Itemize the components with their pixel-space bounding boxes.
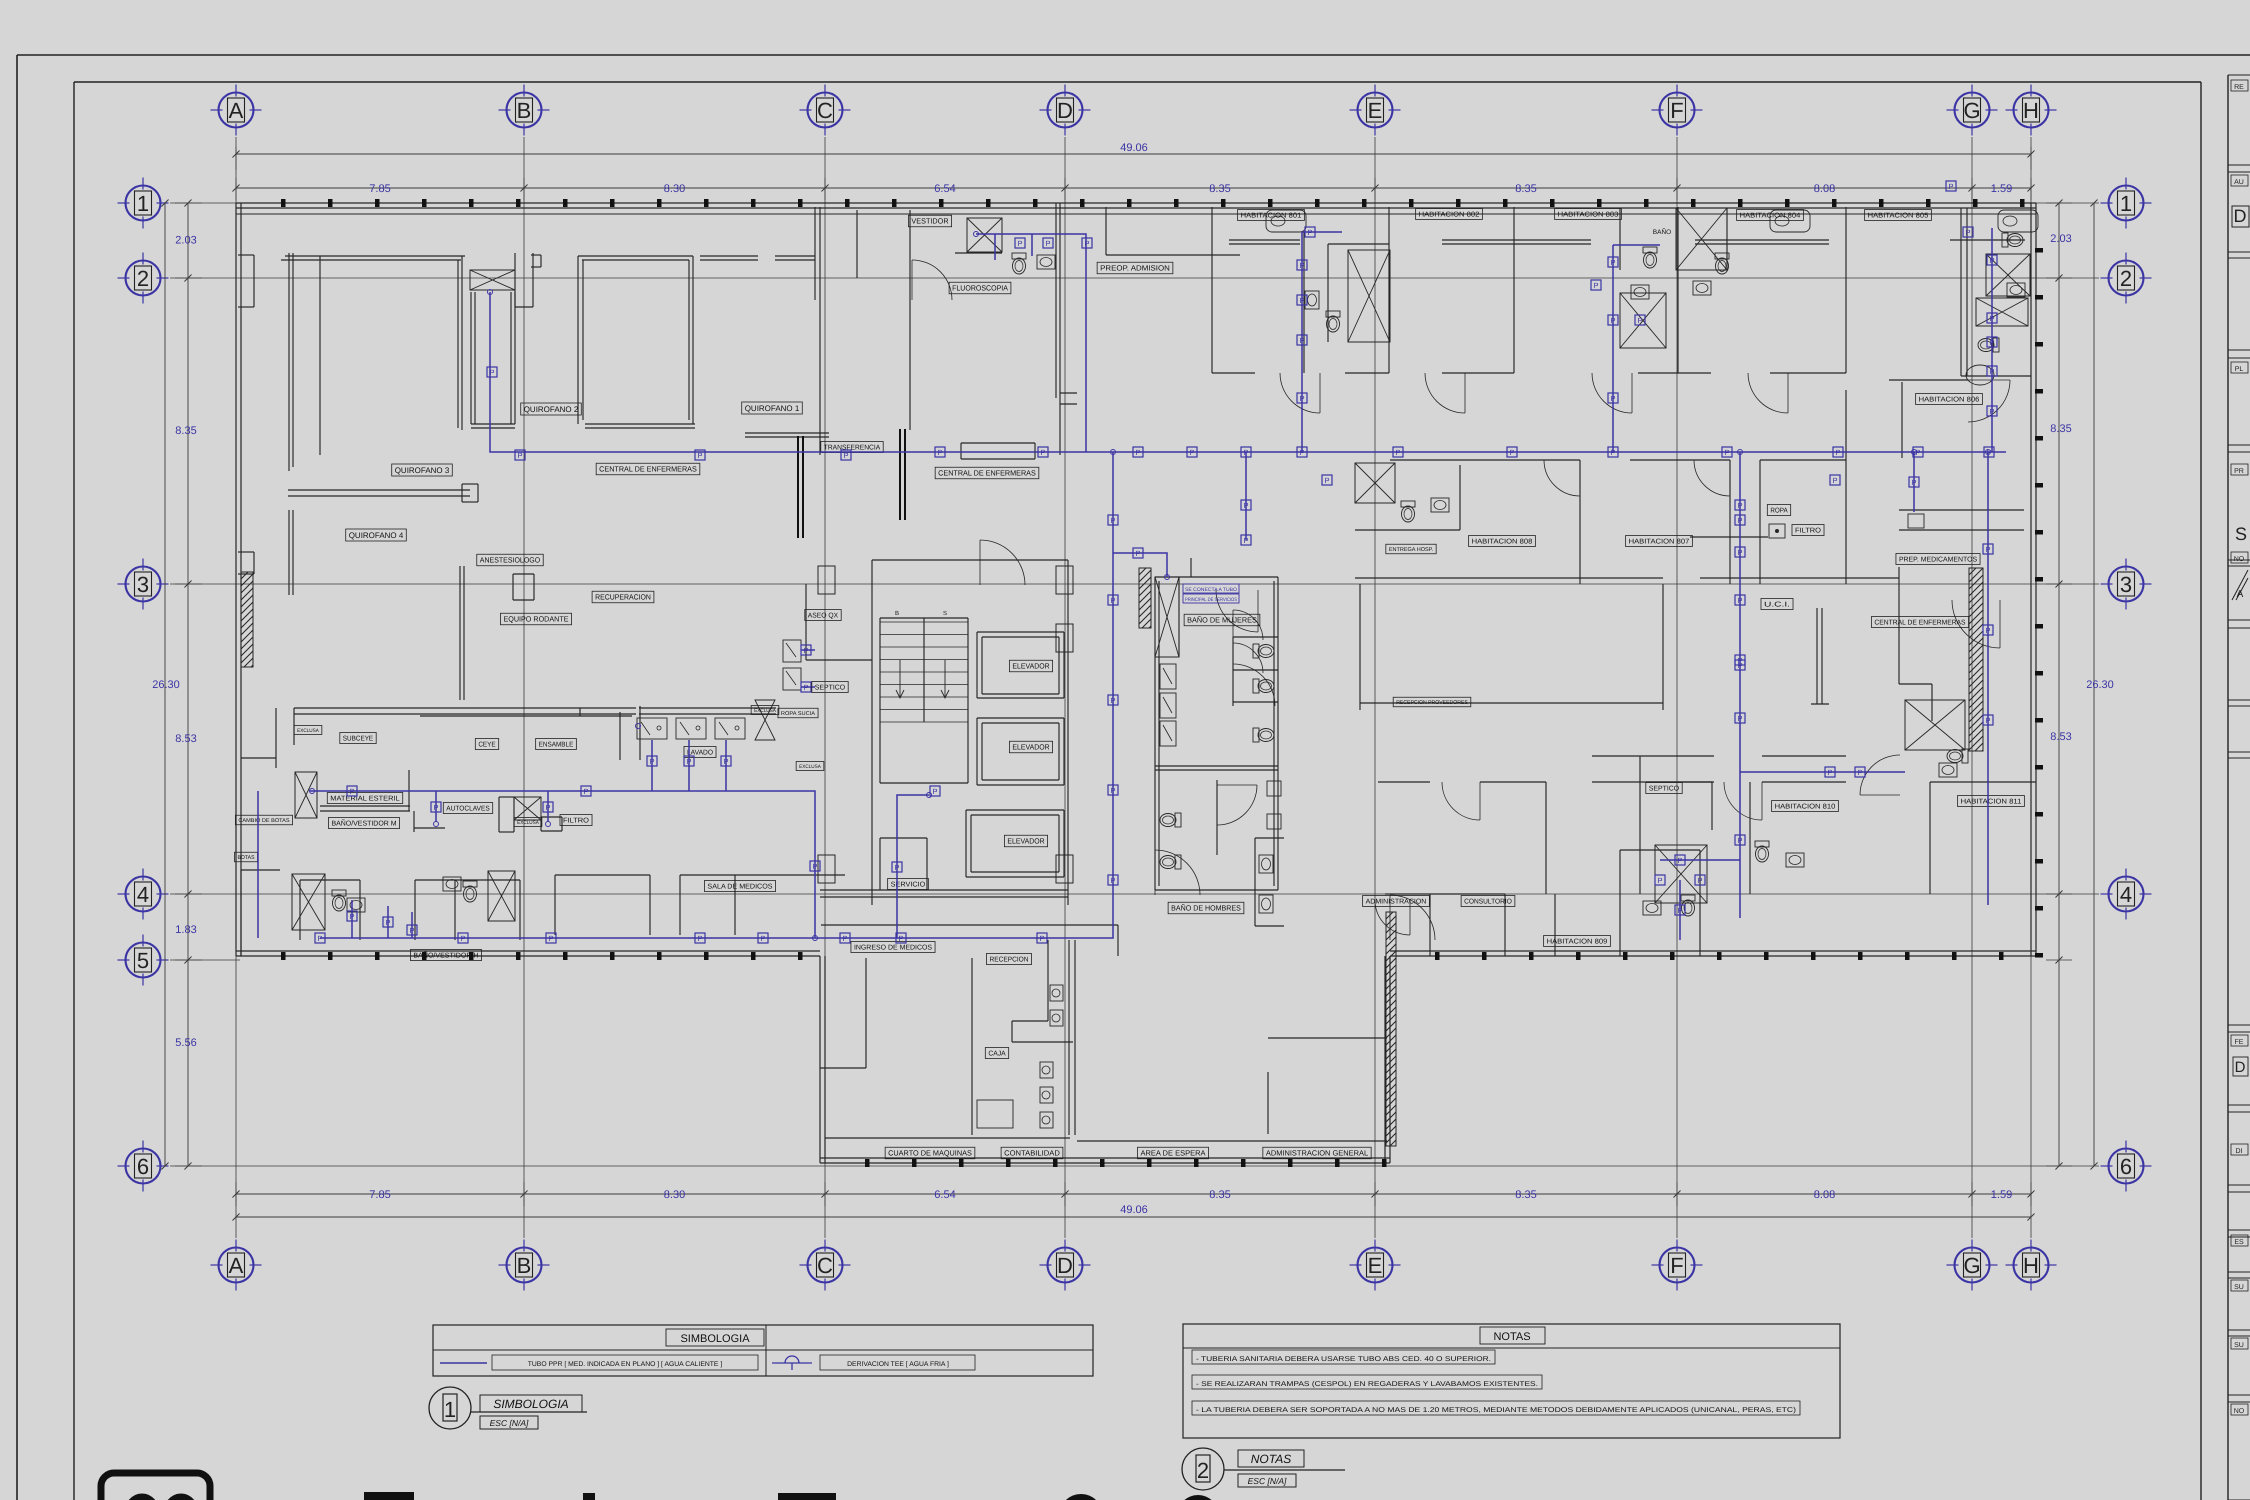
svg-text:6.54: 6.54 (934, 1189, 955, 1201)
svg-text:B: B (517, 98, 532, 123)
svg-text:8.35: 8.35 (175, 425, 196, 437)
svg-text:P: P (349, 912, 354, 921)
svg-text:SERVICIO: SERVICIO (891, 882, 926, 889)
svg-text:EQUIPO RODANTE: EQUIPO RODANTE (503, 615, 568, 624)
svg-text:P: P (1610, 258, 1615, 267)
svg-text:SIMBOLOGIA: SIMBOLOGIA (680, 1333, 750, 1345)
svg-text:P: P (894, 863, 899, 872)
svg-text:P: P (842, 934, 847, 943)
svg-text:P: P (1299, 336, 1304, 345)
svg-text:P: P (1610, 394, 1615, 403)
svg-text:TUBO PPR [ MED. INDICADA EN PL: TUBO PPR [ MED. INDICADA EN PLANO ] [ AG… (528, 1361, 723, 1368)
svg-text:QUIROFANO 3: QUIROFANO 3 (395, 466, 450, 475)
svg-text:PREP. MEDICAMENTOS: PREP. MEDICAMENTOS (1899, 557, 1977, 564)
svg-text:P: P (1737, 836, 1742, 845)
svg-text:ELEVADOR: ELEVADOR (1012, 662, 1050, 671)
svg-text:CONSULTORIO: CONSULTORIO (1464, 899, 1512, 906)
svg-text:8.53: 8.53 (2050, 731, 2071, 743)
svg-text:P: P (1677, 856, 1682, 865)
svg-text:P: P (1039, 934, 1044, 943)
svg-text:F: F (1670, 98, 1683, 123)
svg-text:P: P (1948, 182, 1953, 191)
svg-text:P: P (1110, 596, 1115, 605)
svg-text:P: P (1989, 407, 1994, 416)
svg-text:P: P (1243, 501, 1248, 510)
svg-text:EXCLUSA: EXCLUSA (799, 764, 821, 770)
svg-text:NO: NO (2234, 556, 2245, 563)
svg-text:PREOP. ADMISION: PREOP. ADMISION (1100, 264, 1170, 273)
svg-text:P: P (460, 934, 465, 943)
svg-text:ADMINISTRACION: ADMINISTRACION (1366, 899, 1427, 906)
svg-text:- TUBERIA SANITARIA DEBERA USA: - TUBERIA SANITARIA DEBERA USARSE TUBO A… (1196, 1356, 1491, 1363)
svg-text:P: P (1135, 549, 1140, 558)
svg-text:ELEVADOR: ELEVADOR (1012, 743, 1050, 752)
svg-text:H: H (2023, 98, 2039, 123)
svg-text:BAÑO DE HOMBRES: BAÑO DE HOMBRES (1171, 904, 1241, 913)
svg-text:E: E (1368, 98, 1383, 123)
svg-text:2: 2 (1197, 1458, 1209, 1483)
svg-text:CAMBIO DE BOTAS: CAMBIO DE BOTAS (238, 818, 289, 824)
svg-text:SU: SU (2234, 1342, 2244, 1349)
svg-text:6.54: 6.54 (934, 183, 955, 195)
svg-text:D: D (1057, 1253, 1073, 1278)
svg-text:P: P (760, 934, 765, 943)
svg-text:C: C (817, 98, 833, 123)
svg-text:DERIVACION TEE [ AGUA FRIA ]: DERIVACION TEE [ AGUA FRIA ] (847, 1361, 949, 1368)
svg-text:RECEPCION PROVEEDORES: RECEPCION PROVEEDORES (1396, 700, 1468, 706)
svg-text:P: P (1610, 316, 1615, 325)
svg-text:SUBCEYE: SUBCEYE (343, 736, 374, 743)
svg-text:P: P (1737, 714, 1742, 723)
svg-text:AREA DE ESPERA: AREA DE ESPERA (1140, 1149, 1205, 1158)
svg-text:P: P (697, 934, 702, 943)
svg-text:8.08: 8.08 (1814, 183, 1835, 195)
svg-text:4: 4 (2120, 882, 2132, 907)
svg-text:1: 1 (137, 191, 149, 216)
svg-text:1: 1 (444, 1397, 456, 1422)
svg-text:P: P (686, 757, 691, 766)
svg-text:PR: PR (2234, 468, 2244, 475)
svg-text:HABITACION 807: HABITACION 807 (1629, 539, 1690, 546)
svg-text:8.08: 8.08 (1814, 1189, 1835, 1201)
svg-text:P: P (1610, 448, 1615, 457)
svg-text:MATERIAL ESTERIL: MATERIAL ESTERIL (330, 796, 400, 803)
svg-text:P: P (1737, 661, 1742, 670)
svg-text:SEPTICO: SEPTICO (815, 685, 846, 692)
svg-text:P: P (1911, 478, 1916, 487)
svg-text:HABITACION 805: HABITACION 805 (1868, 213, 1929, 220)
svg-text:P: P (1299, 448, 1304, 457)
svg-text:AU: AU (2234, 179, 2244, 186)
svg-text:CEYE: CEYE (478, 742, 496, 749)
svg-text:QUIROFANO 4: QUIROFANO 4 (349, 531, 404, 540)
svg-text:P: P (1989, 314, 1994, 323)
svg-text:P: P (1985, 716, 1990, 725)
svg-text:TRANSFERENCIA: TRANSFERENCIA (824, 445, 881, 452)
svg-text:49.06: 49.06 (1120, 142, 1148, 154)
svg-text:HABITACION 802: HABITACION 802 (1419, 212, 1480, 219)
svg-text:8.35: 8.35 (1209, 1189, 1230, 1201)
svg-text:P: P (1110, 696, 1115, 705)
svg-text:P: P (1110, 786, 1115, 795)
svg-text:P: P (545, 803, 550, 812)
svg-text:P: P (1045, 239, 1050, 248)
svg-text:RECUPERACION: RECUPERACION (595, 593, 651, 602)
svg-text:CENTRAL DE ENFERMERAS: CENTRAL DE ENFERMERAS (938, 469, 1036, 478)
svg-text:P: P (1307, 228, 1312, 237)
svg-text:26.30: 26.30 (2086, 679, 2114, 691)
svg-text:P: P (1677, 906, 1682, 915)
svg-text:P: P (1299, 296, 1304, 305)
svg-text:P: P (489, 368, 494, 377)
svg-text:S: S (2235, 524, 2247, 544)
svg-text:D: D (2235, 1059, 2246, 1076)
svg-text:P: P (409, 926, 414, 935)
svg-text:P: P (1985, 626, 1990, 635)
svg-text:P: P (898, 934, 903, 943)
svg-text:7.85: 7.85 (369, 183, 390, 195)
svg-text:P: P (1737, 548, 1742, 557)
svg-text:DI: DI (2236, 1148, 2243, 1155)
svg-text:7.85: 7.85 (369, 1189, 390, 1201)
svg-text:P: P (583, 787, 588, 796)
svg-text:- LA TUBERIA DEBERA SER SOPORT: - LA TUBERIA DEBERA SER SOPORTADA A NO M… (1196, 1406, 1796, 1414)
svg-text:AUTOCLAVES: AUTOCLAVES (446, 806, 490, 813)
svg-text:PRINCIPAL DE SERVICIOS: PRINCIPAL DE SERVICIOS (1185, 597, 1238, 603)
svg-text:SIMBOLOGIA: SIMBOLOGIA (493, 1397, 568, 1411)
svg-text:INGRESO DE MEDICOS: INGRESO DE MEDICOS (854, 945, 932, 952)
svg-text:P: P (1395, 448, 1400, 457)
svg-text:BAÑO/VESTIDOR M: BAÑO/VESTIDOR M (331, 819, 396, 828)
svg-text:P: P (1189, 448, 1194, 457)
svg-text:ENSAMBLE: ENSAMBLE (539, 742, 574, 749)
svg-text:BAÑO: BAÑO (1653, 228, 1671, 236)
svg-text:SE CONECTA A TUBO: SE CONECTA A TUBO (1185, 587, 1237, 593)
svg-text:P: P (349, 787, 354, 796)
svg-text:CUARTO DE MAQUINAS: CUARTO DE MAQUINAS (888, 1149, 972, 1158)
svg-text:VESTIDOR: VESTIDOR (911, 217, 949, 226)
svg-text:P: P (1857, 768, 1862, 777)
svg-text:2.03: 2.03 (2050, 233, 2071, 245)
svg-text:A: A (229, 98, 244, 123)
svg-text:ES: ES (2234, 1239, 2244, 1246)
svg-text:P: P (723, 757, 728, 766)
svg-text:FE: FE (2235, 1039, 2244, 1046)
svg-text:HABITACION 810: HABITACION 810 (1775, 804, 1836, 811)
svg-text:P: P (517, 451, 522, 460)
svg-text:P: P (1965, 228, 1970, 237)
svg-text:ADMINISTRACION GENERAL: ADMINISTRACION GENERAL (1266, 1149, 1368, 1158)
svg-text:SU: SU (2234, 1284, 2244, 1291)
svg-text:P: P (697, 451, 702, 460)
svg-text:NO: NO (2234, 1408, 2245, 1415)
svg-text:BAÑO/VESTIDOR H: BAÑO/VESTIDOR H (413, 951, 478, 960)
svg-text:HABITACION 811: HABITACION 811 (1961, 799, 2022, 806)
svg-text:1.59: 1.59 (1991, 183, 2012, 195)
svg-text:B: B (895, 610, 899, 617)
svg-text:P: P (1985, 545, 1990, 554)
svg-text:F: F (1670, 1253, 1683, 1278)
svg-text:ANESTESIOLOGO: ANESTESIOLOGO (480, 556, 541, 565)
svg-text:ASEO QX: ASEO QX (808, 613, 839, 620)
svg-text:8.53: 8.53 (175, 733, 196, 745)
svg-text:P: P (1835, 448, 1840, 457)
svg-text:EXCLUSA: EXCLUSA (297, 728, 319, 734)
svg-text:S: S (943, 610, 947, 617)
svg-text:HABITACION 804: HABITACION 804 (1740, 213, 1801, 220)
svg-text:FILTRO: FILTRO (563, 818, 590, 825)
svg-text:ESC [N/A]: ESC [N/A] (1248, 1476, 1287, 1486)
svg-text:RE: RE (2234, 84, 2244, 91)
svg-text:P: P (385, 918, 390, 927)
svg-text:P: P (1737, 596, 1742, 605)
svg-text:P: P (1243, 536, 1248, 545)
svg-text:CONTABILIDAD: CONTABILIDAD (1004, 1149, 1060, 1158)
svg-text:P: P (1243, 448, 1248, 457)
svg-text:P: P (1509, 448, 1514, 457)
svg-text:HABITACION 803: HABITACION 803 (1558, 212, 1619, 219)
svg-text:P: P (1110, 876, 1115, 885)
svg-text:B: B (517, 1253, 532, 1278)
svg-text:P: P (1989, 338, 1994, 347)
svg-text:4: 4 (137, 882, 149, 907)
svg-text:P: P (812, 862, 817, 871)
svg-text:ROPA: ROPA (1770, 508, 1788, 515)
svg-text:8.30: 8.30 (664, 1189, 685, 1201)
svg-text:P: P (937, 448, 942, 457)
svg-text:P: P (1657, 876, 1662, 885)
svg-text:BAÑO DE MUJERES: BAÑO DE MUJERES (1187, 616, 1257, 625)
svg-text:P: P (548, 934, 553, 943)
svg-text:P: P (1737, 516, 1742, 525)
svg-text:P: P (317, 934, 322, 943)
svg-text:8.35: 8.35 (1515, 1189, 1536, 1201)
svg-text:HABITACION 801: HABITACION 801 (1241, 213, 1302, 220)
svg-text:3: 3 (137, 572, 149, 597)
svg-text:P: P (1110, 516, 1115, 525)
svg-text:5: 5 (137, 948, 149, 973)
svg-text:ELEVADOR: ELEVADOR (1007, 837, 1045, 846)
svg-text:3: 3 (2120, 572, 2132, 597)
svg-text:6: 6 (137, 1154, 149, 1179)
svg-text:P: P (433, 803, 438, 812)
svg-text:P: P (843, 451, 848, 460)
svg-text:P: P (1989, 367, 1994, 376)
svg-text:C: C (817, 1253, 833, 1278)
svg-text:P: P (1989, 256, 1994, 265)
svg-text:HABITACION 809: HABITACION 809 (1547, 939, 1608, 946)
svg-text:P: P (1017, 239, 1022, 248)
svg-text:- SE REALIZARAN TRAMPAS (CESPO: - SE REALIZARAN TRAMPAS (CESPOL) EN REGA… (1196, 1380, 1538, 1388)
svg-text:HABITACION 806: HABITACION 806 (1919, 397, 1980, 404)
svg-text:SEPTICO: SEPTICO (1649, 786, 1680, 793)
svg-text:H: H (2023, 1253, 2039, 1278)
svg-text:PL: PL (2235, 366, 2244, 373)
svg-text:G: G (1963, 1253, 1980, 1278)
svg-text:P: P (1737, 501, 1742, 510)
svg-text:D: D (1057, 98, 1073, 123)
svg-text:A: A (2237, 589, 2244, 600)
svg-text:8.30: 8.30 (664, 183, 685, 195)
svg-text:CAJA: CAJA (988, 1051, 1006, 1058)
svg-text:6: 6 (2120, 1154, 2132, 1179)
svg-text:8.35: 8.35 (2050, 423, 2071, 435)
svg-text:26.30: 26.30 (152, 679, 180, 691)
svg-text:P: P (1593, 281, 1598, 290)
svg-text:P: P (649, 757, 654, 766)
svg-text:P: P (1299, 261, 1304, 270)
svg-text:P: P (1724, 448, 1729, 457)
svg-text:NOTAS: NOTAS (1251, 1452, 1291, 1466)
svg-text:8.35: 8.35 (1515, 183, 1536, 195)
svg-text:P: P (1299, 394, 1304, 403)
svg-text:G: G (1963, 98, 1980, 123)
svg-text:2: 2 (137, 266, 149, 291)
svg-text:HABITACION 808: HABITACION 808 (1472, 539, 1533, 546)
svg-text:P: P (932, 787, 937, 796)
svg-text:CENTRAL DE ENFERMERAS: CENTRAL DE ENFERMERAS (1874, 620, 1965, 627)
svg-text:P: P (1637, 316, 1642, 325)
svg-text:RECEPCION: RECEPCION (989, 957, 1028, 964)
svg-text:BOTAS: BOTAS (237, 855, 254, 861)
svg-text:5.56: 5.56 (175, 1037, 196, 1049)
svg-text:P: P (1084, 239, 1089, 248)
svg-text:P: P (1135, 448, 1140, 457)
svg-text:2: 2 (2120, 266, 2132, 291)
svg-text:ENTREGA HOSP.: ENTREGA HOSP. (1389, 547, 1434, 553)
svg-text:ROPA SUCIA: ROPA SUCIA (781, 711, 815, 717)
svg-text:CENTRAL DE ENFERMERAS: CENTRAL DE ENFERMERAS (599, 465, 697, 474)
svg-text:EXCLUSA: EXCLUSA (754, 708, 776, 714)
svg-text:D: D (2234, 206, 2247, 226)
svg-text:1.59: 1.59 (1991, 1189, 2012, 1201)
svg-text:P: P (1040, 448, 1045, 457)
svg-text:1: 1 (2120, 191, 2132, 216)
svg-text:NOTAS: NOTAS (1493, 1331, 1530, 1343)
svg-text:FLUOROSCOPIA: FLUOROSCOPIA (952, 284, 1008, 293)
svg-text:FILTRO: FILTRO (1795, 528, 1822, 535)
svg-text:P: P (1832, 476, 1837, 485)
svg-text:49.06: 49.06 (1120, 1204, 1148, 1216)
svg-text:U.C.I.: U.C.I. (1764, 602, 1790, 609)
svg-text:8.35: 8.35 (1209, 183, 1230, 195)
svg-text:SALA DE MEDICOS: SALA DE MEDICOS (707, 884, 772, 891)
svg-text:E: E (1368, 1253, 1383, 1278)
svg-text:P: P (1827, 768, 1832, 777)
svg-text:A: A (229, 1253, 244, 1278)
svg-text:1.83: 1.83 (175, 924, 196, 936)
svg-text:QUIROFANO 1: QUIROFANO 1 (745, 404, 800, 413)
svg-text:QUIROFANO 2: QUIROFANO 2 (524, 405, 579, 414)
svg-text:P: P (1324, 476, 1329, 485)
svg-text:EXCLUSA: EXCLUSA (517, 820, 539, 826)
svg-text:ESC [N/A]: ESC [N/A] (490, 1418, 529, 1428)
svg-text:2.03: 2.03 (175, 235, 196, 247)
svg-text:P: P (1697, 876, 1702, 885)
